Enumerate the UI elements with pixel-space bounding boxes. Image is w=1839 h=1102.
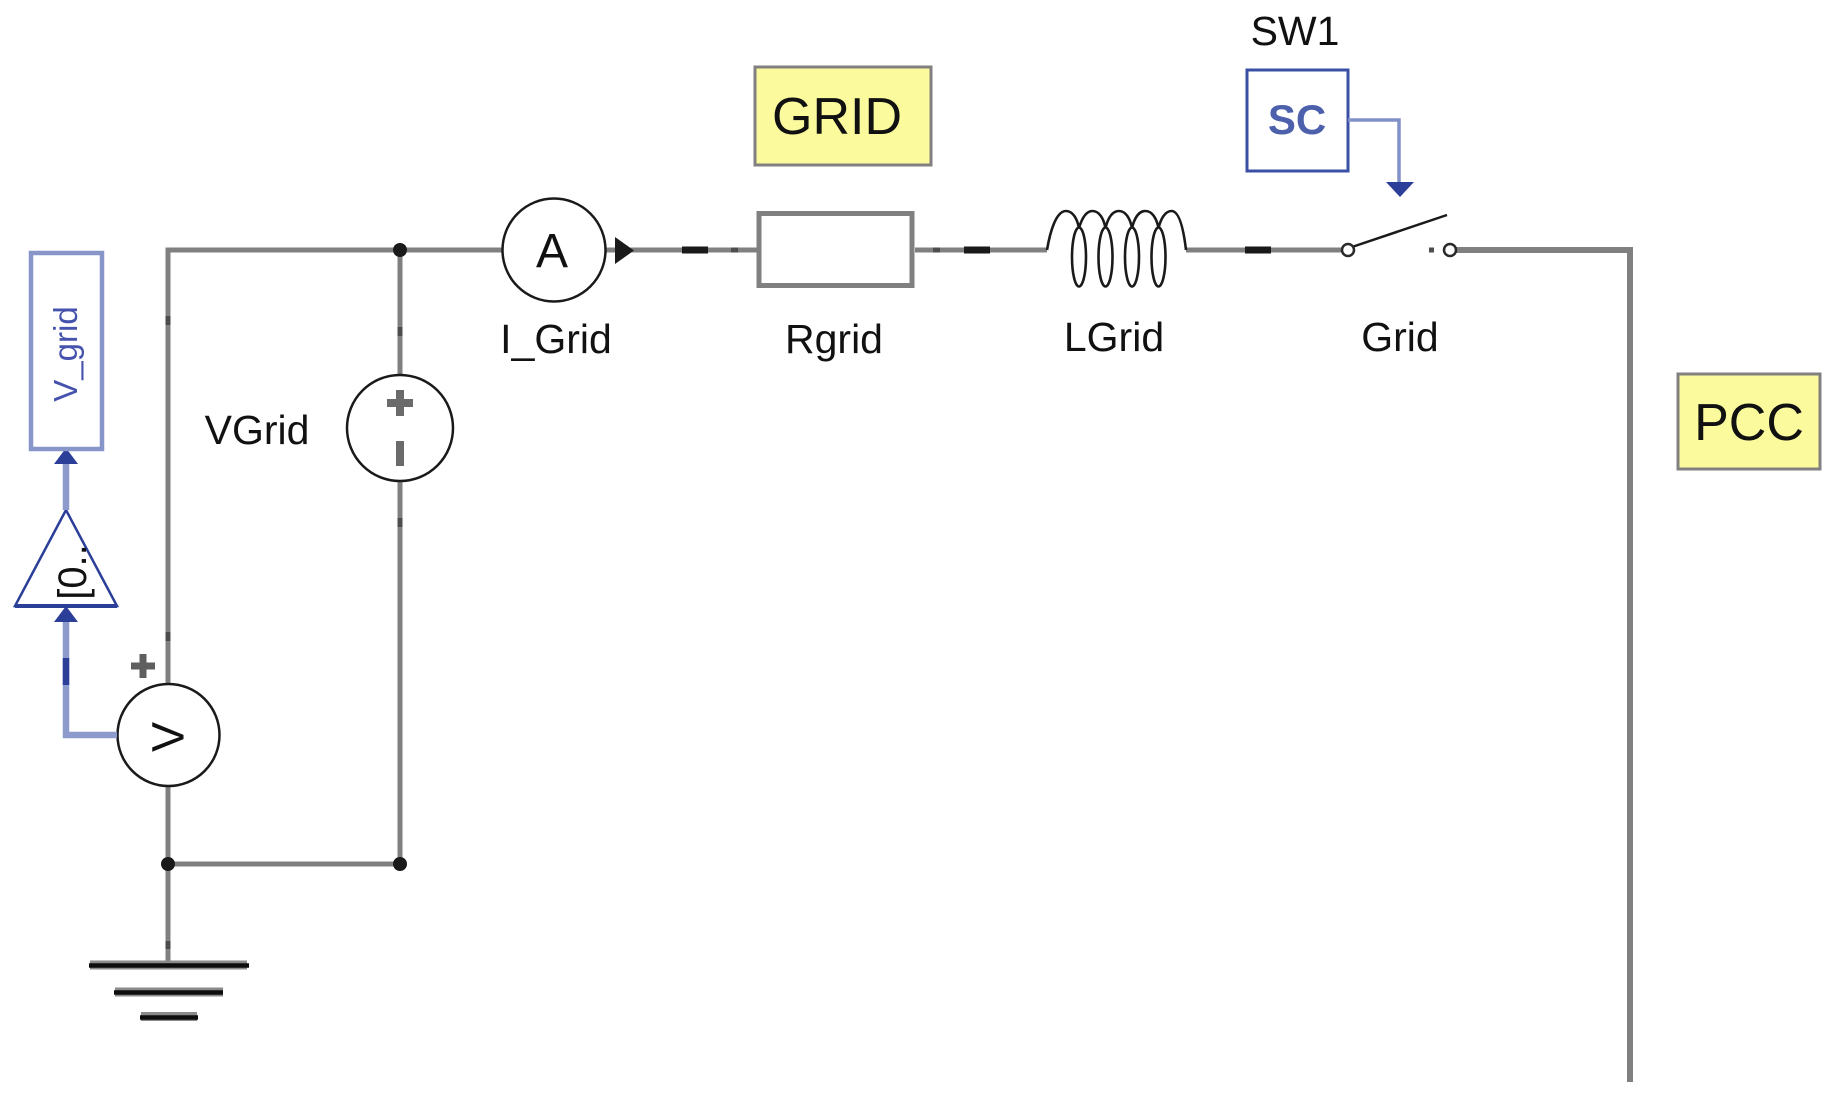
svg-text:PCC: PCC bbox=[1694, 394, 1804, 452]
svg-text:A: A bbox=[536, 225, 568, 278]
svg-text:Grid: Grid bbox=[1361, 314, 1438, 360]
svg-text:[0..: [0.. bbox=[51, 544, 95, 600]
svg-text:SW1: SW1 bbox=[1251, 8, 1340, 54]
svg-text:GRID: GRID bbox=[772, 88, 902, 146]
svg-text:Rgrid: Rgrid bbox=[785, 316, 883, 362]
svg-text:V: V bbox=[143, 722, 194, 752]
svg-text:VGrid: VGrid bbox=[205, 407, 310, 453]
svg-text:V_grid: V_grid bbox=[47, 306, 84, 401]
svg-text:LGrid: LGrid bbox=[1064, 314, 1164, 360]
svg-text:SC: SC bbox=[1268, 96, 1326, 143]
svg-text:I_Grid: I_Grid bbox=[500, 316, 612, 362]
